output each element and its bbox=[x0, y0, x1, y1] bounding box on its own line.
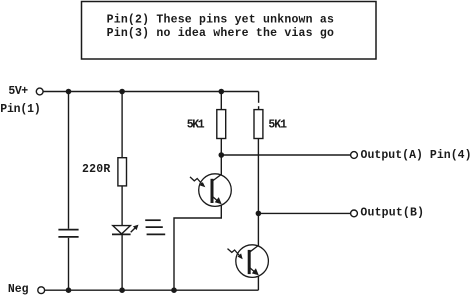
resistor 5K1 left bbox=[217, 110, 226, 139]
wire 5V+ rail bbox=[43, 91, 258, 93]
svg-text:Output(B): Output(B) bbox=[360, 207, 424, 220]
phototransistor Q1 bbox=[199, 174, 232, 207]
resistor 5K1 right bbox=[254, 110, 263, 139]
label Neg bbox=[8, 283, 29, 296]
wire 5K1 left branch upper bbox=[220, 92, 222, 110]
label 220R bbox=[82, 163, 110, 176]
wire between 220R and LED bbox=[121, 186, 123, 226]
light arrow into Q1 bbox=[190, 177, 205, 187]
junction neg rail / capacitor bbox=[66, 287, 72, 293]
resistor 220R bbox=[118, 158, 127, 186]
svg-text:Pin(3) no idea where the vias: Pin(3) no idea where the vias go bbox=[107, 27, 334, 40]
svg-text:220R: 220R bbox=[82, 163, 110, 176]
svg-text:Pin(1): Pin(1) bbox=[0, 103, 41, 116]
light arrow into Q2 bbox=[228, 249, 243, 260]
label 5K1 right bbox=[268, 119, 287, 132]
wire Q1 emitter to neg rail bbox=[174, 205, 221, 290]
junction top rail / 5K1 left branch bbox=[219, 89, 225, 95]
svg-text:5V+: 5V+ bbox=[8, 85, 28, 98]
junction neg rail / Q1 emitter bbox=[171, 287, 177, 293]
svg-text:Pin(2) These pins yet unknown: Pin(2) These pins yet unknown as bbox=[107, 13, 334, 26]
note text line 1: Pin(2) bbox=[107, 13, 334, 26]
terminal Output(A) bbox=[351, 152, 358, 159]
junction top rail / LED branch bbox=[119, 89, 125, 95]
label Pin(1) bbox=[0, 103, 41, 116]
terminal 5V+ (open circle) bbox=[36, 88, 43, 95]
wire capacitor branch upper bbox=[68, 92, 70, 229]
junction neg rail / LED bbox=[119, 287, 125, 293]
label Output(A) Pin(4) bbox=[361, 149, 472, 162]
label 5V+ bbox=[8, 85, 28, 98]
svg-text:5K1: 5K1 bbox=[268, 119, 287, 132]
wire LED branch upper bbox=[121, 92, 123, 158]
wire 5K1 right to Q2 collector bbox=[257, 139, 259, 247]
label Output(B) bbox=[360, 207, 424, 220]
wire top rail corner to 5K1 right bbox=[258, 92, 260, 110]
wire Q2 emitter to neg rail bbox=[257, 276, 259, 290]
LED light emission lines bbox=[145, 220, 165, 234]
junction top rail / capacitor branch bbox=[66, 89, 72, 95]
note text line 2: Pin(3) bbox=[107, 27, 334, 40]
wire neg rail bbox=[45, 289, 259, 291]
capacitor C1 bbox=[58, 230, 78, 237]
svg-text:Output(A) Pin(4): Output(A) Pin(4) bbox=[361, 149, 472, 162]
wire output A bbox=[221, 154, 350, 156]
junction output A node bbox=[219, 152, 225, 158]
label 5K1 left bbox=[187, 119, 205, 132]
wire 5K1 left to collector bbox=[220, 139, 222, 176]
phototransistor Q2 bbox=[236, 245, 269, 278]
svg-text:5K1: 5K1 bbox=[187, 119, 205, 132]
LED D1 bbox=[112, 225, 139, 235]
svg-text:Neg: Neg bbox=[8, 283, 29, 296]
annotation box bbox=[82, 2, 377, 60]
terminal Output(B) bbox=[351, 210, 358, 217]
terminal Neg (open circle) bbox=[38, 287, 45, 294]
wire LED branch lower bbox=[121, 234, 123, 290]
wire capacitor branch lower bbox=[68, 238, 70, 290]
wire output B bbox=[258, 212, 350, 214]
junction output B node bbox=[256, 211, 262, 217]
